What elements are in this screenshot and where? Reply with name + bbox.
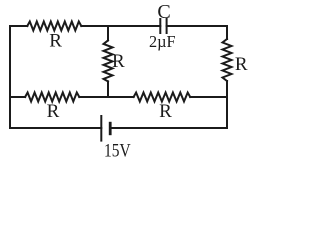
resistor R1 (top-left) — [27, 22, 81, 31]
wire bottom left — [10, 127, 101, 129]
resistor R3 (right vertical) — [223, 39, 232, 81]
resistor R2 (middle vertical) — [104, 40, 113, 81]
wire right edge upper lead — [226, 26, 228, 39]
wire middle branch upper lead — [107, 26, 109, 40]
svg-text:R: R — [159, 101, 172, 122]
wire top-right (capacitor to right edge) — [167, 25, 227, 27]
wire right edge lower — [226, 81, 228, 128]
svg-text:R: R — [112, 51, 125, 72]
resistor R5 (middle row right) — [134, 93, 191, 102]
wire left edge — [9, 26, 11, 128]
wire top-left lead — [10, 25, 27, 27]
resistor R4 (middle row left) — [25, 93, 79, 102]
svg-text:15V: 15V — [104, 141, 131, 160]
battery B1 long plate — [100, 116, 102, 141]
wire middle row left lead — [10, 96, 25, 98]
wire middle row right lead — [190, 96, 227, 98]
svg-text:R: R — [49, 31, 62, 52]
wire middle row center — [79, 96, 133, 98]
wire top middle (R1 to capacitor left plate) — [81, 25, 160, 27]
svg-text:C: C — [157, 1, 170, 23]
svg-text:R: R — [47, 101, 60, 122]
wire bottom right — [110, 127, 227, 129]
capacitor C right plate — [166, 19, 168, 33]
capacitor C left plate — [159, 19, 161, 33]
svg-text:R: R — [235, 54, 248, 75]
wire middle branch lower lead — [107, 81, 109, 97]
battery B1 short plate — [109, 123, 112, 134]
svg-text:2µF: 2µF — [149, 32, 176, 51]
